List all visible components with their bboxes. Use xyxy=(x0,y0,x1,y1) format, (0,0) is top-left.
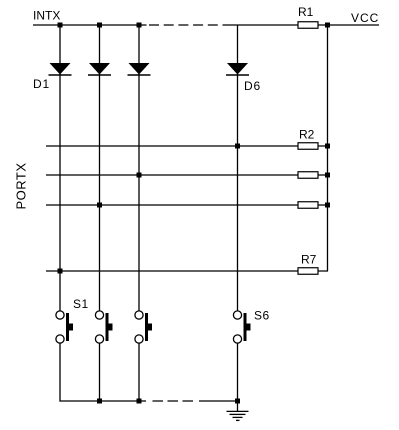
junction dot top line col3 xyxy=(137,23,142,28)
wire bottom line dashed segment xyxy=(153,400,194,402)
diode D3 xyxy=(128,63,151,75)
wire INTX top line dashed segment xyxy=(149,24,233,26)
wire column 3 lower xyxy=(138,343,140,401)
svg-text:D6: D6 xyxy=(244,79,261,93)
junction dot line1 col4 xyxy=(235,144,240,149)
junction dot bottom line col3 xyxy=(137,399,142,404)
svg-text:R7: R7 xyxy=(301,253,317,267)
ground symbol xyxy=(227,411,249,420)
diode D6 xyxy=(226,63,249,75)
switch S2 xyxy=(95,311,112,343)
wire INTX top line solid right segment to VCC xyxy=(233,24,380,26)
wire port line 1 xyxy=(46,145,328,147)
wire bottom line solid right segment xyxy=(199,400,238,402)
wire column 2 lower xyxy=(99,343,101,401)
wire INTX top line solid left segment xyxy=(33,24,147,26)
wire column 1 lower xyxy=(59,343,61,401)
junction dot top line col2 xyxy=(97,23,102,28)
junction dot line1 rail xyxy=(325,144,330,149)
wire port line 2 xyxy=(46,174,328,176)
resistor R4 (unlabeled) xyxy=(298,202,318,209)
wire port line 3 xyxy=(46,204,328,206)
junction dot line2 rail xyxy=(325,173,330,178)
switch S1 xyxy=(56,311,73,343)
wire column 4 upper xyxy=(237,25,239,311)
wire port line 4 xyxy=(46,270,328,272)
junction dot line3 rail xyxy=(325,203,330,208)
resistor R2 xyxy=(298,143,318,150)
svg-text:R2: R2 xyxy=(299,128,315,142)
svg-text:S6: S6 xyxy=(254,309,270,323)
junction dot bottom line col4 ground xyxy=(235,399,240,404)
wire column 3 upper xyxy=(138,25,140,311)
wire column 4 lower xyxy=(237,343,239,411)
switch S3 xyxy=(135,311,152,343)
svg-text:S1: S1 xyxy=(73,297,89,311)
diode D2 xyxy=(88,63,111,75)
svg-text:INTX: INTX xyxy=(33,9,60,23)
svg-text:PORTX: PORTX xyxy=(14,162,29,209)
wire column 1 upper xyxy=(59,25,61,311)
svg-text:VCC: VCC xyxy=(351,11,379,25)
svg-text:D1: D1 xyxy=(33,77,50,91)
junction dot line3 col2 xyxy=(97,203,102,208)
wire bottom line solid left segment xyxy=(60,400,146,402)
diode D1 xyxy=(49,63,72,75)
wire VCC vertical rail xyxy=(327,25,329,271)
junction dot line4 col1 xyxy=(58,269,63,274)
switch S6 xyxy=(233,311,250,343)
svg-text:R1: R1 xyxy=(298,5,314,19)
junction dot bottom line col2 xyxy=(97,399,102,404)
resistor R1 xyxy=(298,22,318,29)
resistor R7 xyxy=(298,268,318,275)
wire column 2 upper xyxy=(99,25,101,311)
junction dot top line VCC rail xyxy=(325,23,330,28)
junction dot top line col1 xyxy=(58,23,63,28)
junction dot line2 col3 xyxy=(137,173,142,178)
resistor R3 (unlabeled) xyxy=(298,172,318,179)
